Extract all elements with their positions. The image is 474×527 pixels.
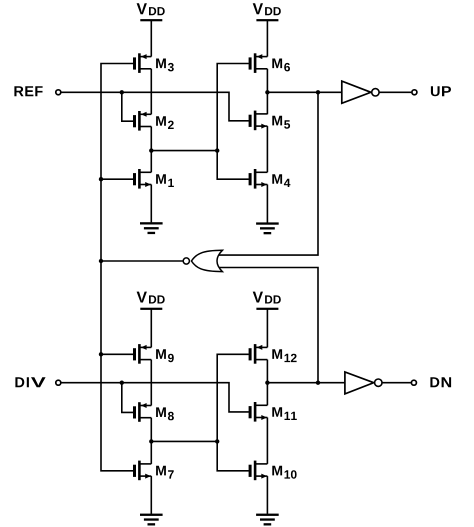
wire node A to gates of M6 M4 bbox=[151, 150, 217, 152]
ground below M10 bbox=[256, 514, 279, 526]
label M7 bbox=[156, 466, 174, 479]
label M3 bbox=[156, 59, 174, 72]
label M10 bbox=[272, 466, 296, 479]
wire REF to M2 gate bbox=[122, 92, 134, 121]
wire UP node to NOR top input bbox=[217, 92, 319, 255]
junction DN node at M12-M11 bbox=[265, 381, 269, 385]
wire M11 source to M10 drain bbox=[266, 418, 268, 464]
wire NOR bottom input to DN node bbox=[217, 268, 319, 383]
junction node A left bbox=[149, 148, 153, 152]
wire M6 drain to VDD bbox=[266, 21, 268, 57]
transistor M10 bbox=[249, 461, 268, 481]
wire M10 source to ground bbox=[266, 476, 268, 514]
ground below M4 bbox=[256, 222, 279, 234]
transistor M5 bbox=[249, 111, 268, 131]
label DIV bbox=[15, 377, 45, 387]
label REF bbox=[14, 86, 42, 96]
junction DIV / M8 gate bbox=[120, 381, 124, 385]
wire NOR output to rail bbox=[101, 260, 184, 262]
transistor M8 bbox=[133, 402, 151, 422]
label M4 bbox=[272, 174, 290, 187]
node REF input terminal bbox=[56, 90, 61, 95]
label M2 bbox=[156, 116, 174, 129]
transistor M4 bbox=[249, 169, 268, 189]
transistor M9 bbox=[133, 344, 151, 364]
wire M9 source to M8 drain bbox=[150, 360, 152, 406]
transistor M11 bbox=[249, 402, 268, 422]
junction DN node from NOR bbox=[316, 381, 320, 385]
wire reset rail NOR output to M3 M7 gates bbox=[101, 64, 133, 471]
label M8 bbox=[156, 407, 174, 420]
ground below M1 bbox=[140, 222, 163, 234]
label M5 bbox=[272, 116, 290, 129]
junction node B right bbox=[215, 439, 219, 443]
VDD supply top-left bbox=[137, 3, 165, 21]
wire M12 source M11 drain DN node bbox=[266, 360, 268, 406]
junction UP node at M6-M5 bbox=[265, 90, 269, 94]
junction REF / M2 gate bbox=[120, 90, 124, 94]
label UP bbox=[431, 86, 451, 96]
label M11 bbox=[272, 407, 297, 420]
label M1 bbox=[156, 174, 174, 187]
ground below M7 bbox=[140, 514, 163, 526]
wire UP node to inverter bbox=[267, 91, 342, 93]
wire M7 source to ground bbox=[150, 476, 152, 514]
wire M1 source to ground bbox=[150, 185, 152, 223]
wire node B to gates of M12 M10 bbox=[151, 440, 217, 442]
label M12 bbox=[272, 349, 296, 362]
junction node A right bbox=[215, 148, 219, 152]
transistor M3 bbox=[133, 53, 151, 73]
label M6 bbox=[272, 59, 290, 72]
wire M6 source M5 drain UP node bbox=[266, 69, 268, 115]
inverter U3 DN bbox=[345, 372, 411, 394]
label M9 bbox=[156, 349, 174, 362]
wire M8 source to M7 drain bbox=[150, 418, 152, 464]
wire M2 source to M1 drain bbox=[150, 127, 152, 173]
wire M6 M4 gate vertical bbox=[217, 64, 249, 180]
wire M5 source to M4 drain bbox=[266, 126, 268, 172]
node U2 UP output terminal bbox=[412, 90, 417, 95]
wire DIV to M8 gate bbox=[122, 383, 134, 413]
junction rail / M1 gate bbox=[99, 177, 103, 181]
wire rail to M9 gate bbox=[101, 353, 133, 355]
label DN bbox=[430, 377, 451, 387]
wire M12 M10 gate vertical bbox=[217, 354, 249, 471]
wire M12 drain to VDD bbox=[266, 309, 268, 347]
transistor M1 bbox=[133, 169, 151, 189]
wire M4 source to ground bbox=[266, 185, 268, 223]
NOR gate U1 bbox=[183, 250, 222, 271]
junction rail / NOR output bbox=[99, 259, 103, 263]
wire M3 drain to VDD bbox=[150, 21, 152, 57]
wire REF input to M5 gate bbox=[61, 92, 249, 121]
transistor M7 bbox=[133, 461, 151, 481]
wire rail to M1 gate bbox=[101, 178, 133, 180]
junction rail / M9 gate bbox=[99, 352, 103, 356]
transistor M12 bbox=[249, 344, 268, 364]
wire M3 source to M2 drain bbox=[150, 69, 152, 115]
VDD supply top-right bbox=[253, 3, 281, 21]
node DIV input terminal bbox=[56, 380, 61, 385]
VDD supply bottom-left bbox=[137, 292, 165, 310]
wire DIV input to M11 gate bbox=[61, 383, 249, 412]
junction node B left bbox=[149, 439, 153, 443]
transistor M6 bbox=[249, 53, 268, 73]
wire M9 drain to VDD bbox=[150, 309, 152, 347]
transistor M2 bbox=[133, 111, 151, 131]
VDD supply bottom-right bbox=[253, 292, 281, 310]
node U3 DN output terminal bbox=[411, 380, 416, 385]
inverter U2 UP bbox=[342, 81, 412, 103]
junction UP node to NOR bbox=[316, 90, 320, 94]
wire DN node to inverter bbox=[267, 382, 345, 384]
